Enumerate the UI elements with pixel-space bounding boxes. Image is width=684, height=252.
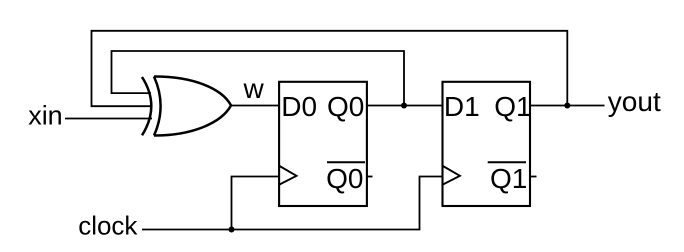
svg-text:D0: D0 (281, 91, 317, 122)
svg-text:D1: D1 (444, 91, 480, 122)
svg-text:Q1: Q1 (490, 163, 527, 194)
svg-text:xin: xin (28, 101, 63, 131)
svg-text:clock: clock (78, 211, 138, 241)
svg-text:w: w (243, 73, 265, 104)
svg-text:yout: yout (608, 86, 661, 117)
svg-text:Q1: Q1 (494, 91, 531, 122)
svg-text:Q0: Q0 (327, 91, 364, 122)
svg-text:Q0: Q0 (326, 163, 363, 194)
